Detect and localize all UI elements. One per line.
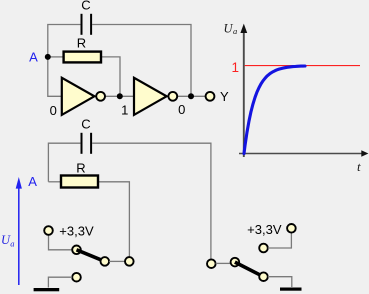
svg-text:t: t [357,159,361,174]
left switch ground contact [72,273,81,282]
capacitor C1 (top) [81,0,91,35]
wire: inverter U1 output bubble to inverter U2 input [106,95,135,97]
svg-text:+3,3V: +3,3V [59,223,94,238]
wire: node A (bottom) up to capacitor C2 left plate [48,143,80,182]
node A (top) [29,50,51,65]
svg-text:a: a [233,26,237,36]
svg-text:R: R [77,36,86,51]
svg-text:C: C [81,0,90,13]
right switch common node circle [207,259,216,268]
svg-text:+3,3V: +3,3V [247,222,282,237]
ground (left) [34,288,60,291]
ground (right) [280,288,302,291]
svg-text:U: U [224,21,234,35]
terminal Y [206,89,229,104]
graph x-axis [239,150,368,157]
left switch common node circle [125,257,134,266]
resistor R2 (bottom) [61,161,98,188]
red asymptote level line [232,60,360,75]
wire: node A up to capacitor C1 left plate [48,25,81,58]
svg-text:R: R [76,161,85,176]
svg-text:C: C [81,117,90,132]
left switch lever [77,250,105,262]
wire: ground contact to ground symbol (left) [48,277,72,287]
graph label Ua [224,21,238,36]
wire: capacitor C2 right plate to right switch common [92,143,211,259]
svg-text:A: A [29,50,38,65]
wire: capacitor C1 right plate feedback down to inverter U2 output node [92,25,191,97]
right switch ground throw contact [259,272,268,281]
wire: node A to resistor R1 left [48,56,63,58]
label Ua (bottom left, blue) [1,233,14,249]
exponential charging curve [244,66,305,154]
+3,3V supply terminal (right) [247,222,296,237]
junction node at U2 output [188,93,194,99]
+3,3V supply terminal (left) [44,223,94,238]
wire: node A (bottom) to resistor R2 left [48,181,61,183]
svg-text:Y: Y [220,89,229,104]
svg-text:1: 1 [121,102,128,117]
wire: inverter U2 output bubble to terminal Y [178,95,207,97]
left switch contact (+3,3V throw) [72,246,81,255]
wire: +3,3V terminal down to left switch contact [49,235,73,250]
right switch pole [231,258,240,267]
graph y-axis [240,24,247,157]
measurement arrow Ua (blue) [16,177,22,285]
right switch +3,3V throw contact [259,244,268,253]
svg-text:a: a [10,239,14,249]
inverter U2 [134,78,177,115]
right switch lever [235,262,264,277]
inverter U1 [62,78,105,115]
wire: left switch pole to common node [109,260,125,262]
wire: resistor R2 right down to left switch common [99,182,129,257]
svg-text:0: 0 [178,102,185,117]
capacitor C2 (bottom) [81,117,91,154]
svg-text:A: A [28,174,37,189]
wire: right switch common to pole [216,262,231,264]
svg-text:1: 1 [232,60,240,75]
junction node between U1 and U2 [117,93,123,99]
left switch pole [101,257,110,266]
wire: +3,3V terminal (right) down to throw contact [268,233,292,248]
wire: node A down to inverter U1 input [48,57,62,96]
wire: resistor R1 right to inverter U2 input node [102,57,121,96]
resistor R1 (top) [64,36,101,63]
wire: ground contact to ground symbol (right) [268,277,292,287]
svg-text:0: 0 [50,103,57,118]
